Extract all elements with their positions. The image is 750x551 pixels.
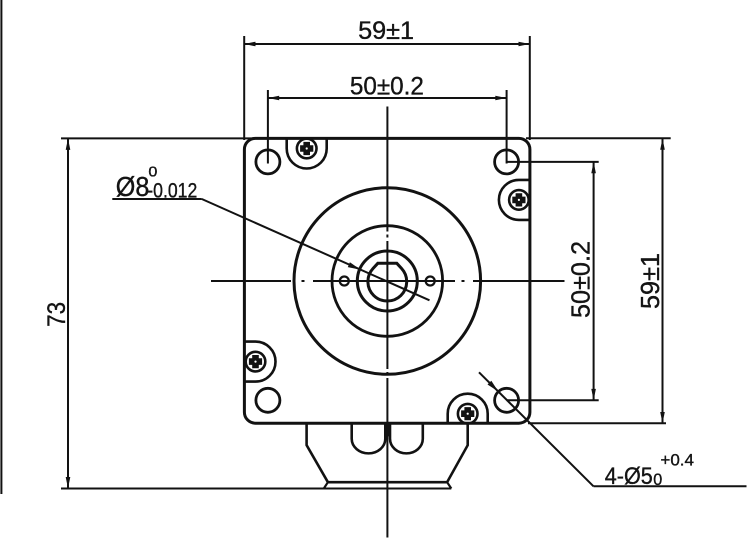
dim 59±1 right: top extension line — [526, 137, 671, 139]
screw recess top-right — [499, 180, 530, 220]
screw head top-right — [509, 190, 529, 210]
leader Ø8: diagonal line — [202, 199, 430, 300]
middle circle — [332, 226, 443, 337]
dim 59±1 top: right arrow — [519, 42, 530, 47]
dim 59±1 top: left arrow — [244, 42, 255, 47]
dim 59±1 right: dimension line — [662, 138, 664, 423]
connector base left chamfer — [324, 482, 328, 488]
svg-text:59±1: 59±1 — [635, 253, 665, 309]
motor body outline — [244, 138, 530, 423]
connector base right chamfer — [447, 482, 451, 488]
bearing bore circle — [357, 251, 417, 311]
leader 4-Ø5: diagonal line — [479, 372, 594, 486]
dim 59±1 right: top arrow — [660, 138, 665, 149]
dim 50±0.2 right: bottom extension line — [507, 399, 599, 401]
screw recess top-left — [287, 138, 327, 168]
leader 4-Ø5: underline — [594, 485, 747, 487]
mounting hole top-left — [256, 150, 280, 174]
dim 73 left: bottom arrow — [66, 477, 71, 489]
svg-text:50±0.2: 50±0.2 — [350, 72, 424, 100]
shaft with flat — [368, 263, 407, 301]
dim 73 left: top extension line — [61, 137, 256, 139]
dim 59±1 right: bottom extension line — [528, 422, 666, 424]
dim 50±0.2 top: right extension line — [506, 90, 508, 164]
svg-text:Ø8: Ø8 — [116, 171, 150, 202]
screw head bottom-right — [458, 404, 478, 424]
connector wire slot right — [390, 423, 423, 453]
leader Ø8: arrowhead — [348, 262, 361, 269]
dim 73 left: bottom extension line merged with connector base lower edge — [61, 488, 451, 490]
dim 73 left: top arrow — [66, 138, 71, 150]
screw head bottom-left — [246, 352, 266, 372]
dim 50±0.2 right: dimension line — [593, 162, 595, 400]
svg-text:-0.012: -0.012 — [147, 179, 197, 203]
dim 50±0.2 top: right arrow — [495, 96, 506, 101]
dim 59±1 right: bottom arrow — [660, 412, 665, 423]
mounting hole bottom-left — [256, 388, 280, 412]
dim 50±0.2 right: bottom arrow — [591, 389, 596, 400]
screw recess bottom-right — [448, 394, 488, 424]
small hole right of shaft — [426, 277, 435, 286]
connector center bar — [385, 423, 391, 436]
dim 50±0.2 top: left arrow — [268, 96, 279, 101]
svg-text:50±0.2: 50±0.2 — [566, 241, 596, 318]
horizontal centerline — [211, 280, 565, 282]
frame border line left — [0, 0, 2, 494]
svg-text:59±1: 59±1 — [358, 17, 414, 45]
dim 59±1 top: right extension line — [529, 36, 531, 140]
dim 73 left: dimension line — [67, 138, 69, 488]
svg-text:+0.4: +0.4 — [660, 451, 694, 470]
svg-text:0: 0 — [653, 470, 662, 489]
svg-text:4-Ø5: 4-Ø5 — [605, 463, 653, 490]
leader 4-Ø5: arrowhead — [488, 381, 499, 392]
small hole left of shaft — [340, 277, 349, 286]
dim 59±1 top: dimension line — [244, 43, 530, 45]
screw recess bottom-left — [245, 342, 276, 382]
screw head top-left — [297, 139, 317, 159]
pilot boss circle — [294, 188, 481, 375]
dim 50±0.2 right: top extension line — [507, 161, 599, 163]
leader Ø8: underline — [112, 198, 202, 200]
mounting hole bottom-right — [495, 388, 519, 412]
connector housing outline — [307, 423, 468, 482]
mounting hole top-right — [495, 150, 519, 174]
dim 50±0.2 top: left extension line — [267, 90, 269, 164]
connector wire slot left — [352, 423, 386, 453]
dim 50±0.2 right: top arrow — [591, 162, 596, 173]
dim 50±0.2 top: dimension line — [268, 97, 507, 99]
dim 59±1 top: left extension line — [243, 36, 245, 140]
svg-text:73: 73 — [43, 302, 71, 327]
vertical centerline — [386, 107, 388, 538]
